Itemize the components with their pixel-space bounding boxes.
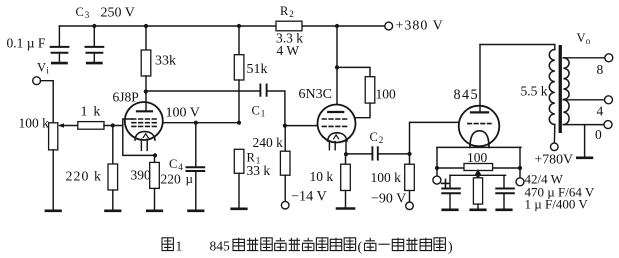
svg-text:33k: 33k [155, 54, 176, 69]
resistor 390 cathode [150, 155, 160, 209]
caption glyph 另 [365, 238, 376, 251]
wire anode to C1 [146, 90, 260, 92]
svg-text:+380 V: +380 V [396, 19, 444, 34]
svg-text:V: V [37, 61, 46, 75]
caption glyph 一 [378, 243, 389, 245]
svg-text:250 V: 250 V [101, 6, 135, 21]
junction 6N3C cathode node [344, 152, 348, 156]
transformer core [559, 45, 562, 133]
6J8P cathode dome [135, 132, 155, 140]
junction B+drop/rail [335, 24, 339, 28]
resistor R2 [276, 21, 302, 31]
ground (1uF) [497, 209, 512, 212]
resistor 100 (6N3C) [355, 77, 375, 118]
svg-text:V: V [577, 31, 586, 45]
caption glyph 功 [289, 238, 300, 251]
svg-text:(: ( [358, 240, 363, 255]
svg-text:5.5 k: 5.5 k [521, 84, 548, 99]
capacitor C3 [86, 26, 104, 62]
resistor 42ohm cathode bias [473, 175, 482, 209]
tube 845 envelope [459, 106, 500, 147]
junction hum pot right [518, 166, 522, 170]
wire filament right drop [519, 147, 521, 177]
resistor 1k grid stopper [78, 122, 104, 130]
svg-text:R: R [280, 4, 289, 18]
caption glyph 相 [420, 238, 431, 251]
transformer secondary upper [563, 58, 569, 100]
ground (390) [147, 210, 162, 213]
tube 6J8P envelope [125, 102, 163, 140]
terminal filament left [433, 176, 441, 184]
6N3C heater stubs [329, 141, 335, 150]
ground (220k) [106, 210, 121, 213]
svg-text:1: 1 [261, 109, 266, 119]
wire screen line 100V [163, 122, 239, 124]
svg-text:2: 2 [379, 135, 384, 145]
845 anode lead [479, 45, 481, 113]
svg-text:220: 220 [161, 172, 182, 187]
terminal -14V [281, 201, 289, 209]
wire rail right of R2 to +380V terminal [302, 25, 385, 27]
resistor 51k (screen dropper) [234, 26, 244, 123]
caption glyph 声 [392, 238, 403, 251]
6N3C anode bar [328, 111, 343, 113]
junction screen/C4 [194, 121, 198, 125]
svg-text:−14 V: −14 V [291, 189, 327, 205]
6J8P grid g3 row [132, 118, 157, 120]
caption glyph 图 [344, 238, 355, 251]
ground (0.1uF) [52, 62, 66, 65]
wire g3-to-cathode tie [123, 119, 155, 155]
label plus polarity [442, 179, 450, 187]
svg-text:1: 1 [176, 239, 183, 254]
junction 6N3C B+ node [335, 65, 339, 69]
resistor 100k [405, 154, 415, 202]
svg-text:240 k: 240 k [253, 135, 284, 150]
svg-text:µ: µ [186, 171, 194, 186]
junction hum pot left [435, 166, 439, 170]
svg-text:1 k: 1 k [81, 105, 102, 120]
terminal tap 8 [605, 54, 613, 62]
caption figure title [162, 238, 453, 255]
capacitor C2 [372, 147, 377, 159]
svg-text:390: 390 [131, 168, 152, 183]
wire 6N3C cathode down [345, 141, 347, 154]
wire C1 to 6N3C grid [267, 91, 318, 126]
junction 845 grid node [407, 152, 411, 156]
ground (42ohm) [471, 209, 486, 212]
6J8P heater stubs [141, 139, 147, 150]
caption glyph 单 [233, 238, 244, 251]
svg-text:o: o [586, 36, 591, 46]
wire 1k to grid [104, 125, 123, 127]
svg-text:C: C [76, 5, 84, 19]
junction wiper node [476, 173, 480, 177]
wire 250V top rail [59, 25, 276, 27]
svg-text:100 k: 100 k [371, 170, 402, 185]
junction C3/rail [92, 24, 96, 28]
wire input to pot [41, 81, 54, 123]
svg-text:C: C [252, 104, 260, 118]
svg-text:0: 0 [595, 127, 602, 142]
caption glyph 图 [162, 238, 173, 251]
wire junction to 100ohm [337, 67, 370, 76]
6N3C cathode arrow [334, 135, 339, 139]
capacitor C1 [260, 85, 266, 96]
node Vi input terminal [33, 77, 41, 85]
resistor 240k grid leak [280, 126, 290, 202]
terminal +380V [385, 22, 393, 30]
junction cathode/390 [153, 153, 157, 157]
hum pot wiper [476, 171, 480, 176]
wire cathode bias bus [450, 174, 506, 176]
wire primary bottom [553, 125, 555, 144]
6N3C cathode dome [328, 133, 347, 141]
caption glyph 甲 [261, 238, 272, 251]
junction 6J8P anode [144, 89, 148, 93]
svg-text:C: C [370, 130, 378, 144]
svg-text:6N3C: 6N3C [299, 87, 332, 102]
resistor 220k grid leak [108, 126, 118, 210]
6N3C grid row 2 [322, 125, 347, 127]
svg-text:10 k: 10 k [310, 169, 334, 184]
junction 33k/rail [144, 24, 148, 28]
svg-text:3: 3 [85, 10, 90, 20]
caption glyph 路 [330, 238, 341, 251]
svg-text:845: 845 [210, 239, 231, 254]
ground (C4) [189, 210, 204, 213]
845 anode bar [471, 111, 488, 113]
wire filament top [437, 146, 521, 148]
wire grid node to 845 grid [410, 122, 461, 153]
terminal +780V [551, 143, 559, 151]
svg-text:220 k: 220 k [66, 169, 103, 184]
6J8P grid g2 row [132, 122, 157, 124]
ground (C3) [87, 62, 101, 65]
svg-text:100: 100 [467, 150, 488, 165]
potentiometer wiper arrow [58, 123, 78, 127]
wire secondary ground branch [584, 125, 586, 157]
caption glyph 类 [275, 238, 286, 251]
junction 6N3C grid/240k [283, 124, 287, 128]
svg-text:2: 2 [289, 9, 294, 19]
wire B+ drop to 6N3C [336, 26, 338, 67]
capacitor 0.1uF [51, 26, 69, 62]
svg-text:4 W: 4 W [277, 43, 300, 58]
wire tap 8 [563, 57, 604, 59]
wire filament left drop [436, 147, 438, 176]
resistor 33k (6J8P anode load) [141, 26, 151, 92]
svg-text:4: 4 [597, 104, 604, 119]
wire cathode to C2 [346, 153, 372, 155]
hum pot 100 leads [437, 167, 520, 169]
transformer secondary lower [563, 100, 569, 125]
junction 51k/rail [237, 24, 241, 28]
resistor R1 33k screen divider [234, 149, 244, 208]
caption glyph 放 [303, 238, 314, 251]
tube 6N3C envelope [318, 105, 356, 143]
ground (470uF) [443, 209, 458, 212]
ground (pot) [46, 210, 61, 213]
6J8P grid g1 row [132, 125, 157, 127]
ground (10k) [337, 207, 354, 210]
svg-text:4: 4 [178, 162, 183, 172]
capacitor 1uF [496, 175, 514, 209]
caption glyph 电 [316, 238, 327, 251]
6J8P cathode arrow [143, 134, 148, 138]
ground (secondary) [577, 157, 592, 160]
svg-text:C: C [169, 157, 177, 171]
svg-text:0.1 µ F: 0.1 µ F [7, 36, 46, 51]
junction screen/51k [237, 121, 241, 125]
svg-text:100 V: 100 V [166, 106, 200, 121]
svg-text:): ) [448, 240, 453, 255]
potentiometer 100k [49, 123, 58, 210]
svg-text:51k: 51k [247, 62, 268, 77]
wire C2 to grid node [378, 153, 410, 155]
svg-text:8: 8 [597, 62, 604, 77]
svg-text:6J8P: 6J8P [113, 90, 139, 105]
caption glyph 道 [406, 238, 417, 251]
resistor 10k [341, 154, 351, 207]
6J8P anode lead and bar [137, 92, 152, 112]
wire 845 anode to transformer [480, 45, 555, 50]
svg-text:33 k: 33 k [247, 163, 271, 178]
svg-text:845: 845 [454, 87, 479, 103]
845 grid row [468, 123, 491, 125]
terminal tap 4 [605, 96, 613, 104]
terminal -90V [406, 202, 414, 210]
terminal filament right [516, 178, 524, 186]
junction grid/220k [111, 123, 115, 127]
svg-text:100: 100 [376, 87, 397, 102]
845 filament dome [470, 131, 489, 148]
svg-text:1 µ F/400 V: 1 µ F/400 V [525, 197, 589, 212]
svg-text:−90 V: −90 V [371, 192, 406, 207]
wire tap 0 [563, 124, 604, 126]
svg-text:+780V: +780V [535, 152, 573, 167]
wire tap 4 [563, 99, 604, 101]
hum pot 100 body [464, 164, 493, 171]
capacitor 470uF electrolytic [442, 175, 460, 209]
ground (R1) [232, 208, 247, 211]
capacitor C4 electrolytic 220uF [187, 123, 205, 210]
6N3C grid row 1 [322, 118, 347, 120]
caption glyph 同 [434, 238, 445, 251]
wire 6N3C anode lead [336, 67, 338, 112]
transformer primary 5.5k [549, 50, 555, 125]
terminal tap 0 [604, 121, 612, 129]
caption glyph 端 [247, 238, 258, 251]
svg-text:100 k: 100 k [19, 116, 50, 131]
